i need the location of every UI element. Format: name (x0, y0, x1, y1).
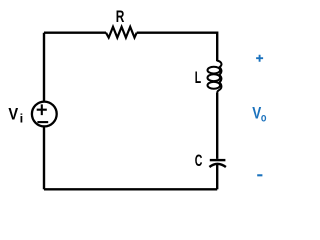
wire inductor to capacitor (216, 93, 218, 159)
resistor R (106, 27, 137, 38)
svg-text:R: R (116, 8, 125, 26)
source plus sign (37, 104, 47, 115)
wire bottom-left up to source (43, 127, 45, 190)
capacitor C top plate (210, 159, 226, 161)
svg-text:V: V (8, 106, 18, 124)
voltage source Vi circle (32, 102, 57, 127)
source minus sign (37, 121, 48, 123)
svg-text:C: C (195, 152, 203, 170)
inductor loop 2 (208, 74, 221, 81)
wire capacitor to bottom-right corner (216, 164, 218, 189)
wire source to top-left corner (43, 33, 45, 102)
minus annotation (blue) (257, 174, 262, 176)
inductor loop 1 (208, 67, 221, 74)
svg-text:L: L (195, 69, 201, 87)
svg-text:i: i (20, 113, 24, 125)
bottom wire (44, 188, 217, 190)
capacitor C curved plate (209, 164, 226, 167)
wire top-left to resistor (44, 32, 106, 34)
inductor L coil spine (217, 61, 221, 93)
svg-text:V: V (252, 105, 261, 123)
svg-text:o: o (261, 112, 267, 124)
wire resistor to top-right corner (137, 33, 218, 62)
inductor loop 3 (208, 82, 221, 89)
plus annotation (blue) (256, 55, 263, 62)
